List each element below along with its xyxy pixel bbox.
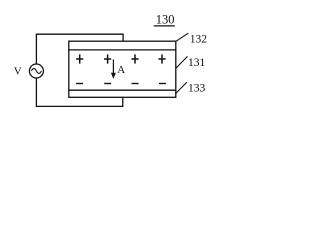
svg-text:130: 130 (156, 13, 175, 27)
plus 4 (158, 58, 165, 60)
plus charge row (76, 54, 166, 63)
minus 2 (104, 83, 111, 85)
minus 3 (132, 83, 139, 85)
wire: source bottom to bottom plate (36, 78, 122, 106)
sine wave inside source (31, 69, 41, 74)
capacitor outer rectangle 130 (69, 41, 176, 97)
bottom plate 133 top edge (69, 89, 176, 91)
leader line 132 (176, 33, 188, 41)
arrow A head (111, 73, 116, 79)
svg-text:132: 132 (190, 34, 208, 46)
minus charge row (76, 83, 166, 85)
wire: source top to top plate (36, 34, 123, 64)
arrow A shaft (112, 60, 114, 76)
minus 1 (76, 83, 83, 85)
svg-text:131: 131 (188, 57, 206, 69)
AC source circle (29, 64, 43, 78)
minus 4 (159, 83, 166, 85)
leader line 131 (176, 56, 188, 68)
leader line 133 (175, 82, 186, 94)
svg-text:V: V (14, 66, 22, 78)
plus 3 (131, 58, 138, 60)
svg-text:A: A (117, 64, 125, 76)
svg-text:133: 133 (188, 83, 206, 95)
plus 2 (104, 58, 111, 60)
plus 1 (76, 58, 83, 60)
top plate 132 bottom edge (69, 49, 176, 51)
